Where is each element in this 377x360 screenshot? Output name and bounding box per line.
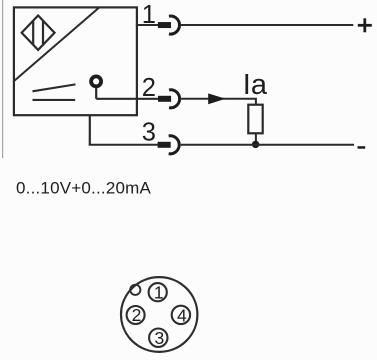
wire pin2 to load	[181, 99, 256, 105]
connector pin 4	[172, 305, 190, 325]
proximity sensor diamond symbol	[22, 16, 55, 50]
svg-text:0...10V+0...20mA: 0...10V+0...20mA	[16, 179, 151, 198]
svg-text:Ia: Ia	[243, 69, 268, 101]
connector pin 2	[127, 305, 145, 325]
connector pin 1	[149, 283, 167, 303]
wire tap to pin2 connector	[96, 98, 158, 100]
sensor internal diagonal	[15, 7, 100, 80]
connector face outline	[121, 277, 197, 352]
current direction arrow	[208, 93, 225, 104]
wire pin1 to connector	[136, 24, 158, 26]
svg-text:2: 2	[142, 74, 156, 102]
sensor body outline	[14, 7, 137, 115]
wire pin1 to plus	[181, 24, 353, 26]
svg-text:3: 3	[142, 118, 156, 146]
keyway hole	[130, 285, 140, 295]
svg-text:2: 2	[132, 305, 142, 325]
connector plug pin 3	[158, 136, 180, 154]
junction node	[252, 141, 259, 148]
minus terminal	[358, 146, 366, 149]
plus terminal	[358, 18, 372, 32]
svg-text:1: 1	[154, 283, 164, 303]
svg-text:4: 4	[177, 305, 187, 325]
connector plug pin 2	[158, 90, 180, 108]
connector pin 3	[149, 328, 167, 348]
svg-text:3: 3	[155, 328, 165, 348]
wire resistor to node	[255, 133, 257, 145]
wire pin3 to minus	[181, 144, 354, 146]
wire box bottom down	[89, 114, 91, 145]
output tap stem wire	[95, 87, 97, 99]
wire to pin3 connector	[89, 144, 158, 146]
connector plug pin 1	[158, 16, 180, 34]
output tap circle	[91, 76, 101, 86]
load resistor	[248, 105, 262, 134]
adjustment ramp lines	[33, 84, 76, 100]
